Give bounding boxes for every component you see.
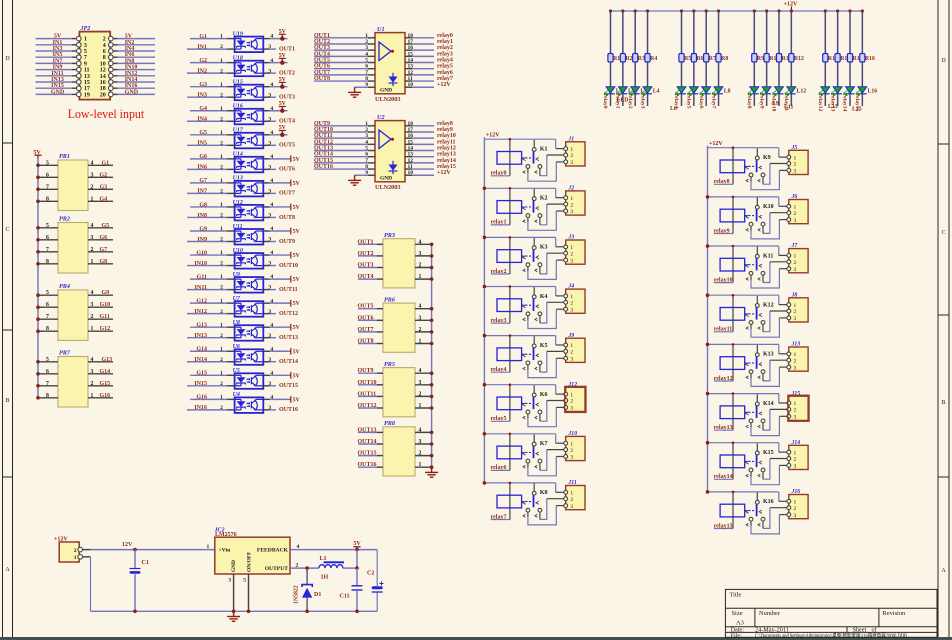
svg-text:R3: R3	[638, 56, 645, 62]
ground for U2	[348, 175, 361, 185]
LED L1	[604, 61, 623, 106]
svg-text:OUT1: OUT1	[358, 239, 374, 245]
svg-text:OUT3: OUT3	[314, 45, 330, 51]
svg-text:R4: R4	[650, 56, 657, 62]
svg-text:J14: J14	[791, 440, 801, 446]
svg-text:+12V: +12V	[437, 82, 451, 88]
svg-text:3: 3	[268, 261, 271, 267]
svg-text:1: 1	[220, 394, 223, 400]
svg-text:relay4: relay4	[491, 367, 507, 373]
svg-text:J16: J16	[791, 489, 801, 495]
svg-text:1: 1	[220, 154, 223, 160]
svg-text:Size: Size	[732, 610, 743, 617]
svg-text:17: 17	[84, 86, 90, 92]
svg-text:5: 5	[46, 223, 49, 229]
svg-text:J10: J10	[567, 431, 577, 437]
ground for U3	[348, 87, 361, 97]
relay K1 with connector J1	[484, 136, 585, 181]
svg-text:+12V: +12V	[784, 2, 798, 8]
svg-text:U5: U5	[233, 368, 240, 374]
svg-text:LM2576: LM2576	[215, 532, 237, 538]
svg-text:OUT16: OUT16	[279, 407, 298, 413]
svg-text:3: 3	[268, 285, 271, 291]
svg-text:K6: K6	[540, 392, 548, 398]
optocoupler U14	[187, 152, 300, 173]
svg-text:3: 3	[268, 309, 271, 315]
relay K15 with connector J14	[706, 440, 808, 485]
svg-text:OUT7: OUT7	[314, 70, 330, 76]
svg-text:K14: K14	[763, 401, 774, 407]
svg-text:K4: K4	[540, 294, 548, 300]
svg-text:G8: G8	[100, 259, 108, 265]
svg-text:J4: J4	[567, 284, 574, 290]
svg-text:relay1: relay1	[437, 39, 453, 45]
svg-text:18: 18	[408, 33, 414, 39]
svg-text:relay10: relay10	[437, 133, 456, 139]
svg-text:Number: Number	[759, 610, 781, 617]
resistor R4	[645, 11, 657, 62]
svg-text:R8: R8	[721, 56, 728, 62]
svg-text:1: 1	[419, 274, 422, 280]
svg-text:+12V: +12V	[54, 536, 68, 542]
svg-text:4: 4	[419, 427, 422, 433]
svg-text:3: 3	[91, 302, 94, 308]
svg-text:1: 1	[220, 178, 223, 184]
svg-text:ULN2003: ULN2003	[375, 96, 400, 103]
resistor pack PR6	[358, 296, 434, 352]
power +12V rail relay column at x=707.5	[708, 141, 724, 492]
svg-text:5V: 5V	[293, 397, 301, 403]
svg-text:U19: U19	[233, 31, 243, 37]
svg-text:1: 1	[220, 250, 223, 256]
resistor pack PR5	[358, 361, 434, 417]
svg-text:14: 14	[100, 74, 106, 80]
svg-text:5V: 5V	[293, 157, 301, 163]
svg-text:G12: G12	[196, 298, 207, 304]
svg-text:OUT14: OUT14	[314, 152, 333, 158]
svg-text:3: 3	[419, 380, 422, 386]
svg-text:1: 1	[220, 274, 223, 280]
svg-text:1: 1	[91, 326, 94, 332]
svg-text:A: A	[941, 568, 946, 574]
svg-text:OUT15: OUT15	[314, 158, 333, 164]
svg-text:13: 13	[408, 64, 414, 70]
op-amp driver U1 (ULN2003)	[314, 26, 453, 103]
svg-text:+12V: +12V	[709, 141, 723, 147]
svg-text:OUT14: OUT14	[358, 439, 377, 445]
svg-text:OUT9: OUT9	[279, 239, 295, 245]
svg-text:R16: R16	[865, 56, 875, 62]
svg-text:B: B	[941, 400, 945, 406]
svg-text:2: 2	[220, 116, 223, 122]
svg-text:relay10: relay10	[714, 277, 733, 283]
svg-text:8: 8	[46, 326, 49, 332]
svg-text:C: C	[941, 230, 945, 236]
capacitor C1	[130, 550, 149, 612]
svg-text:1: 1	[220, 130, 223, 136]
svg-text:4: 4	[91, 290, 94, 296]
LED L13	[819, 61, 830, 106]
svg-text:U4: U4	[233, 392, 240, 398]
svg-text:G2: G2	[100, 172, 108, 178]
resistor pack PR8	[358, 420, 434, 476]
connector JP2	[36, 25, 156, 100]
svg-text:12: 12	[408, 70, 414, 76]
svg-text:L11: L11	[784, 105, 793, 111]
svg-text:5: 5	[84, 49, 87, 55]
svg-text:R2: R2	[625, 56, 632, 62]
svg-text:1: 1	[419, 462, 422, 468]
LED L11	[772, 61, 783, 106]
svg-text:1: 1	[220, 298, 223, 304]
svg-text:3: 3	[365, 45, 368, 51]
svg-text:relay5: relay5	[437, 64, 453, 70]
svg-text:G8: G8	[199, 202, 207, 208]
wire 12V top	[91, 542, 215, 552]
svg-text:PR6: PR6	[384, 296, 396, 303]
optocoupler U17	[187, 125, 295, 149]
svg-text:U12: U12	[233, 200, 243, 206]
svg-text:9: 9	[84, 61, 87, 67]
svg-text:2: 2	[220, 68, 223, 74]
svg-text:5V: 5V	[125, 34, 133, 40]
svg-text:5V: 5V	[54, 34, 62, 40]
zone letters left	[5, 56, 10, 573]
LED L10	[760, 61, 771, 106]
svg-text:D: D	[941, 58, 946, 64]
svg-text:3: 3	[268, 189, 271, 195]
svg-text:2: 2	[419, 391, 422, 397]
svg-text:relay6: relay6	[491, 465, 507, 471]
svg-text:G2: G2	[199, 58, 207, 64]
node relay0	[602, 94, 608, 109]
svg-text:PR5: PR5	[384, 361, 395, 368]
svg-text:OUT9: OUT9	[358, 368, 374, 374]
svg-text:1: 1	[91, 259, 94, 265]
svg-text:19: 19	[84, 92, 90, 98]
sheet border left	[3, 0, 13, 637]
power +12V top rail	[609, 2, 864, 13]
svg-text:2: 2	[419, 451, 422, 457]
resistor R7	[704, 11, 716, 62]
svg-text:U15: U15	[233, 80, 243, 86]
svg-text:relay13: relay13	[437, 152, 456, 158]
svg-text:20: 20	[100, 92, 106, 98]
svg-text:IN6: IN6	[197, 165, 207, 171]
svg-text:8: 8	[46, 393, 49, 399]
svg-text:G12: G12	[100, 326, 111, 332]
svg-text:relay8: relay8	[714, 179, 730, 185]
svg-text:R7: R7	[709, 56, 716, 62]
capacitor C11	[339, 568, 362, 611]
svg-text:4: 4	[103, 43, 106, 49]
inductor L1	[319, 556, 344, 581]
svg-text:IN6: IN6	[125, 52, 135, 58]
svg-text:G7: G7	[100, 247, 108, 253]
stray LED designator labels	[617, 98, 862, 113]
svg-text:7: 7	[84, 55, 87, 61]
svg-text:1: 1	[74, 555, 77, 561]
svg-text:G9: G9	[199, 226, 207, 232]
svg-text:5V: 5V	[293, 205, 301, 211]
svg-text:K12: K12	[763, 303, 774, 309]
LED L5	[675, 61, 686, 106]
LED L15	[843, 61, 854, 106]
sheet border right	[938, 0, 949, 637]
svg-text:J9: J9	[567, 333, 574, 339]
svg-text:PR1: PR1	[59, 153, 70, 160]
svg-text:OUT8: OUT8	[314, 76, 330, 82]
svg-text:U11: U11	[233, 224, 243, 230]
svg-text:5: 5	[46, 160, 49, 166]
svg-text:5V: 5V	[279, 101, 287, 107]
svg-text:K13: K13	[763, 352, 774, 358]
bottom dark bar	[0, 637, 952, 640]
svg-text:1: 1	[220, 202, 223, 208]
svg-text:relay3: relay3	[639, 94, 645, 109]
svg-text:OUT2: OUT2	[358, 251, 374, 257]
node relay11	[783, 94, 789, 112]
svg-text:J5: J5	[791, 145, 798, 151]
svg-text:IN9: IN9	[197, 237, 207, 243]
svg-text:U17: U17	[233, 128, 244, 134]
node relay8	[746, 94, 752, 109]
svg-text:3: 3	[268, 116, 271, 122]
node relay15	[854, 94, 860, 112]
svg-text:1N5822: 1N5822	[294, 585, 300, 604]
svg-text:7: 7	[46, 247, 49, 253]
svg-text:3: 3	[268, 357, 271, 363]
svg-text:17: 17	[408, 39, 414, 45]
svg-text:13: 13	[84, 74, 90, 80]
svg-text:1: 1	[419, 403, 422, 409]
svg-text:K10: K10	[763, 204, 774, 210]
svg-text:OUT6: OUT6	[358, 315, 374, 321]
node relay10	[771, 94, 777, 112]
svg-text:1: 1	[91, 196, 94, 202]
svg-text:2: 2	[103, 37, 106, 43]
svg-text:G16: G16	[196, 395, 207, 401]
svg-text:Title: Title	[730, 592, 742, 599]
svg-text:U7: U7	[233, 296, 241, 302]
svg-text:IN5: IN5	[197, 141, 207, 147]
resistor R3	[633, 11, 645, 62]
optocoupler U13	[187, 176, 300, 197]
svg-text:J12: J12	[567, 382, 577, 388]
svg-text:5V: 5V	[293, 301, 301, 307]
svg-text:OUT2: OUT2	[314, 39, 330, 45]
svg-text:+12V: +12V	[437, 170, 451, 176]
svg-text:1H: 1H	[321, 575, 329, 581]
svg-text:OUT12: OUT12	[279, 311, 298, 317]
svg-text:2: 2	[91, 247, 94, 253]
svg-text:relay12: relay12	[817, 94, 823, 112]
svg-text:PR8: PR8	[384, 420, 395, 427]
svg-text:3: 3	[268, 213, 271, 219]
diode D1 1N5822	[294, 568, 322, 611]
svg-text:J2: J2	[567, 186, 574, 192]
svg-text:3: 3	[268, 237, 271, 243]
svg-text:relay1: relay1	[491, 220, 507, 226]
svg-text:OUT2: OUT2	[279, 70, 295, 76]
svg-text:OUT4: OUT4	[358, 274, 374, 280]
power +12V rail relay column at x=484.4	[484, 133, 500, 483]
svg-text:1: 1	[220, 58, 223, 64]
svg-text:relay9: relay9	[714, 228, 730, 234]
svg-text:IN16: IN16	[125, 83, 138, 89]
svg-text:relay8: relay8	[437, 121, 453, 127]
svg-text:6: 6	[365, 152, 368, 158]
op-amp driver U2 (ULN2003)	[314, 114, 456, 191]
svg-text:L12: L12	[797, 89, 807, 95]
svg-text:relay4: relay4	[437, 58, 453, 64]
resistor pack PR2	[36, 216, 113, 273]
svg-text:G3: G3	[199, 82, 207, 88]
LED L2	[616, 61, 635, 106]
svg-text:OUT14: OUT14	[279, 359, 298, 365]
svg-text:OUT3: OUT3	[279, 95, 295, 101]
svg-text:3: 3	[268, 68, 271, 74]
resistor R12	[789, 11, 804, 62]
resistor R2	[620, 11, 632, 62]
svg-text:3: 3	[91, 235, 94, 241]
svg-text:G10: G10	[100, 302, 111, 308]
svg-text:8: 8	[365, 76, 368, 82]
svg-text:3: 3	[268, 333, 271, 339]
svg-text:2: 2	[74, 548, 77, 554]
svg-text:2: 2	[91, 314, 94, 320]
svg-text:IN9: IN9	[53, 65, 63, 71]
svg-text:4: 4	[419, 304, 422, 310]
svg-text:IN3: IN3	[197, 93, 207, 99]
svg-text:+12V: +12V	[486, 133, 500, 139]
svg-text:IN2: IN2	[197, 68, 207, 74]
svg-text:OUT12: OUT12	[358, 403, 377, 409]
svg-text:10: 10	[408, 170, 414, 176]
wire bottom rail	[91, 610, 378, 614]
svg-text:16: 16	[100, 80, 106, 86]
svg-text:LED: LED	[617, 98, 629, 104]
svg-text:PR2: PR2	[59, 216, 70, 223]
svg-text:OUT5: OUT5	[358, 304, 374, 310]
svg-text:G1: G1	[199, 34, 207, 40]
svg-text:GND: GND	[380, 175, 392, 181]
svg-text:IN15: IN15	[194, 381, 207, 387]
ground power supply	[227, 611, 240, 621]
svg-text:R5: R5	[684, 56, 691, 62]
LED L4	[641, 61, 660, 106]
svg-text:OUT5: OUT5	[279, 143, 295, 149]
svg-text:2: 2	[220, 405, 223, 411]
svg-text:IN16: IN16	[194, 405, 207, 411]
relay K16 with connector J16	[706, 489, 808, 534]
svg-text:5V: 5V	[279, 29, 287, 35]
svg-text:2: 2	[220, 357, 223, 363]
svg-text:G14: G14	[196, 347, 207, 353]
svg-text:C:\Documents and Settings\Admi: C:\Documents and Settings\Administrator\…	[755, 631, 907, 639]
svg-text:GND: GND	[51, 89, 65, 95]
svg-text:U13: U13	[233, 176, 243, 182]
svg-text:G11: G11	[197, 274, 207, 280]
svg-text:C1: C1	[142, 560, 149, 566]
resistor R14	[835, 11, 850, 62]
svg-text:G6: G6	[199, 154, 207, 160]
svg-text:ON/OFF: ON/OFF	[246, 551, 252, 572]
power 5V	[353, 541, 361, 550]
svg-text:4: 4	[419, 239, 422, 245]
relay K4 with connector J4	[483, 284, 585, 329]
svg-text:5: 5	[365, 58, 368, 64]
svg-text:1: 1	[365, 121, 368, 127]
svg-text:K7: K7	[540, 441, 548, 447]
svg-text:J7: J7	[791, 243, 799, 249]
svg-text:OUT16: OUT16	[358, 462, 377, 468]
svg-text:1: 1	[220, 106, 223, 112]
svg-text:OUT4: OUT4	[279, 119, 295, 125]
svg-text:relay14: relay14	[842, 94, 848, 112]
svg-text:relay7: relay7	[437, 76, 453, 82]
svg-text:5V: 5V	[279, 53, 287, 59]
resistor R5	[679, 11, 691, 62]
svg-text:2: 2	[220, 92, 223, 98]
svg-text:15: 15	[408, 139, 414, 145]
svg-text:L16: L16	[868, 89, 878, 95]
svg-text:8: 8	[46, 259, 49, 265]
svg-text:G3: G3	[100, 184, 108, 190]
resistor R6	[691, 11, 703, 62]
svg-text:U2: U2	[377, 114, 385, 121]
svg-text:1: 1	[220, 346, 223, 352]
svg-text:5V: 5V	[279, 77, 287, 83]
resistor R16	[860, 11, 875, 62]
svg-text:OUT1: OUT1	[279, 46, 295, 52]
svg-text:K5: K5	[540, 343, 548, 349]
svg-text:18: 18	[408, 121, 414, 127]
svg-text:OUT10: OUT10	[279, 263, 298, 269]
svg-text:OUT8: OUT8	[279, 215, 295, 221]
node relay9	[758, 94, 764, 109]
svg-text:relay5: relay5	[686, 94, 692, 109]
svg-text:3: 3	[268, 164, 271, 170]
svg-text:G6: G6	[100, 235, 108, 241]
svg-text:11: 11	[408, 164, 413, 170]
svg-text:relay13: relay13	[714, 425, 733, 431]
svg-text:5V: 5V	[293, 373, 301, 379]
connector P1 +12V input	[54, 536, 91, 562]
LED L9	[748, 61, 759, 106]
svg-text:2: 2	[365, 127, 368, 133]
svg-text:5V: 5V	[293, 349, 301, 355]
resistor pack PR3	[358, 232, 434, 288]
svg-text:9: 9	[365, 82, 368, 88]
svg-text:IN13: IN13	[51, 77, 64, 83]
svg-text:IN14: IN14	[125, 77, 138, 83]
svg-text:G1: G1	[102, 160, 110, 166]
svg-text:IN5: IN5	[53, 52, 63, 58]
svg-text:OUT6: OUT6	[314, 64, 330, 70]
svg-text:relay0: relay0	[437, 33, 453, 39]
power 5V rail for resistor packs	[33, 150, 41, 397]
svg-text:IN11: IN11	[195, 285, 207, 291]
svg-text:IN15: IN15	[51, 83, 64, 89]
resistor R15	[847, 11, 862, 62]
svg-text:OUT3: OUT3	[358, 263, 374, 269]
svg-text:5: 5	[243, 578, 246, 584]
svg-text:7: 7	[365, 70, 368, 76]
svg-text:B: B	[5, 398, 9, 404]
svg-text:relay3: relay3	[491, 318, 507, 324]
svg-text:OUT15: OUT15	[358, 451, 377, 457]
